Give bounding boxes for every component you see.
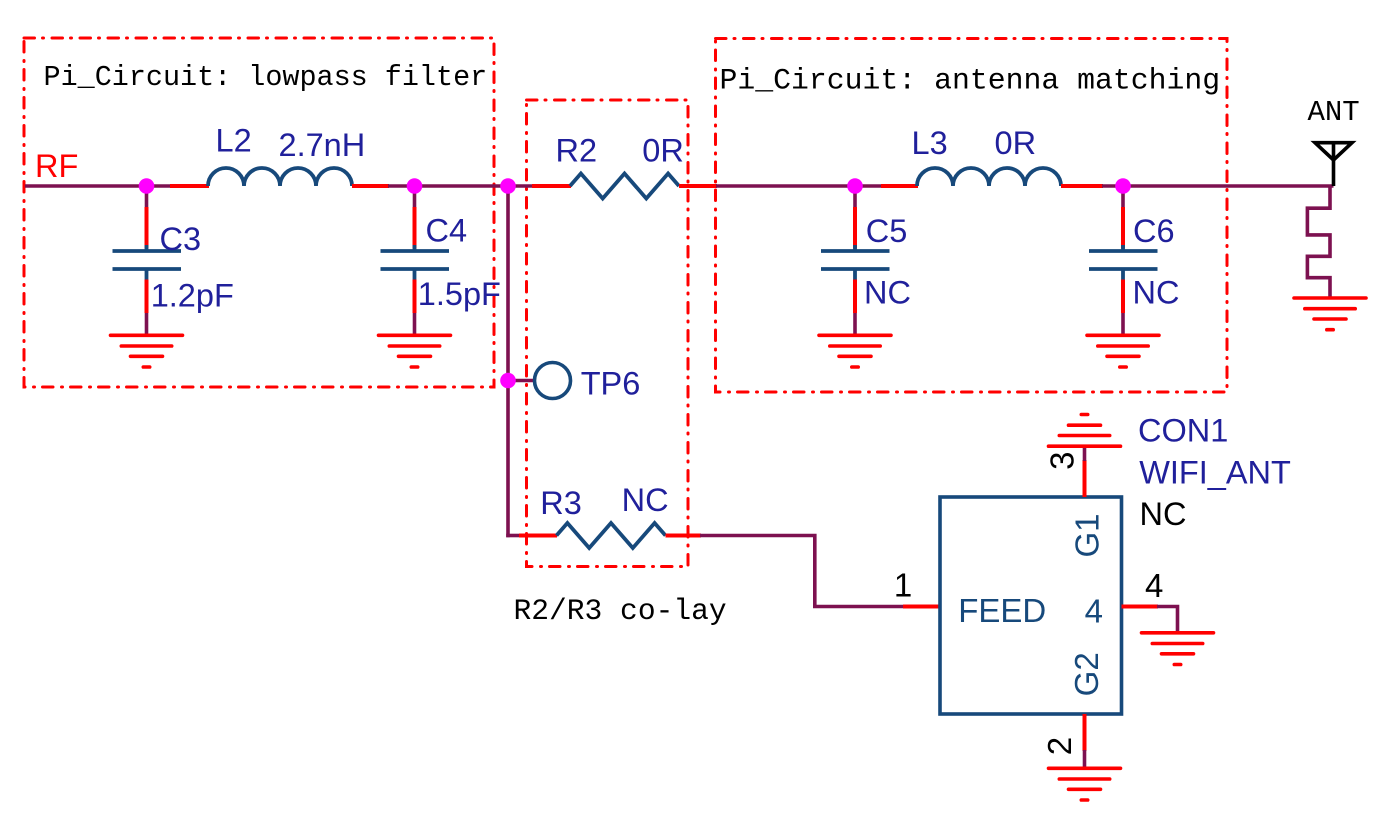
pin C4 bottom (red) [413, 280, 417, 314]
capacitor C5 branch: wire node D down [853, 186, 857, 208]
svg-text:NC: NC [864, 275, 911, 311]
pin L2 right (red) [352, 184, 389, 188]
junction node C [500, 178, 516, 194]
wire C4 to ground [413, 313, 417, 335]
svg-text:C5: C5 [866, 213, 908, 249]
wire C5 to ground [853, 313, 857, 335]
wire node A to L2 pin [146, 184, 170, 188]
junction node B [407, 178, 423, 194]
pin R2 right (red) [679, 184, 717, 188]
svg-text:3: 3 [1044, 452, 1081, 470]
svg-text:R2: R2 [556, 133, 598, 169]
junction node D [847, 178, 863, 194]
svg-text:1.5pF: 1.5pF [418, 276, 501, 312]
pin R3 right (red) [666, 534, 702, 538]
svg-text:1: 1 [894, 567, 912, 604]
resistor R3 [557, 523, 666, 548]
svg-text:R3: R3 [540, 485, 582, 521]
svg-text:ANT: ANT [1308, 96, 1360, 129]
pin 3 (red) [1083, 460, 1087, 497]
wire node D to L3 pin [855, 184, 881, 188]
svg-text:4: 4 [1085, 593, 1103, 630]
ground pin3 (inverted) [1049, 415, 1121, 447]
svg-text:NC: NC [1140, 496, 1187, 532]
capacitor C3 [113, 245, 182, 280]
pin L3 right (red) [1061, 184, 1103, 188]
pin R3 left (red) [519, 534, 557, 538]
pin C4 top (red) [413, 207, 417, 249]
pin C6 bottom (red) [1121, 280, 1125, 314]
svg-text:G1: G1 [1069, 513, 1106, 557]
wire pin3 to ground [1083, 446, 1087, 461]
svg-text:R2/R3 co-lay: R2/R3 co-lay [514, 594, 727, 628]
capacitor C4 branch: wire node B down [413, 186, 417, 208]
svg-text:G2: G2 [1068, 652, 1105, 696]
inductor L3 [917, 168, 1061, 186]
ground C4 [379, 335, 451, 367]
svg-text:Pi_Circuit: antenna matching: Pi_Circuit: antenna matching [720, 63, 1221, 97]
capacitor C6 branch: wire node E down [1121, 186, 1125, 208]
svg-text:NC: NC [622, 482, 669, 518]
svg-text:4: 4 [1145, 567, 1163, 604]
svg-text:WIFI_ANT: WIFI_ANT [1139, 455, 1291, 491]
dashed block: Pi_Circuit antenna matching [716, 39, 1228, 393]
capacitor C3 branch: wire node A down [145, 186, 149, 208]
svg-text:C6: C6 [1133, 213, 1175, 249]
pin C3 top (red) [145, 207, 149, 249]
svg-text:FEED: FEED [958, 592, 1046, 629]
wire R3 row horizontal [506, 534, 519, 538]
wire RF to node A [25, 184, 147, 188]
junction node E [1115, 178, 1131, 194]
resistor R2 [570, 174, 679, 199]
pin C5 bottom (red) [853, 280, 857, 314]
wire L2 to node B [388, 184, 415, 188]
svg-text:C4: C4 [426, 213, 468, 249]
pin 4 (red) [1122, 605, 1159, 609]
svg-text:TP6: TP6 [581, 365, 641, 401]
wire pin2 to ground [1083, 750, 1087, 767]
ground C6 [1087, 335, 1159, 367]
svg-text:0R: 0R [642, 133, 684, 169]
svg-text:1.2pF: 1.2pF [151, 278, 234, 314]
testpoint TP6 circle [535, 363, 571, 399]
wire R3 to corner [700, 536, 904, 607]
wire L3 to node E to antenna [1102, 184, 1334, 188]
capacitor C6 [1089, 245, 1158, 280]
capacitor C5 [821, 245, 890, 280]
wire R2 to node D [716, 184, 856, 188]
svg-text:RF: RF [35, 148, 78, 184]
junction TP6 node [500, 373, 516, 389]
pin L2 left (red) [170, 184, 209, 188]
wire node B to node C to R2 [414, 184, 532, 188]
svg-text:0R: 0R [995, 125, 1037, 161]
antenna meander stub [1307, 186, 1330, 298]
svg-text:Pi_Circuit: lowpass filter: Pi_Circuit: lowpass filter [44, 61, 488, 94]
pin L3 left (red) [881, 184, 918, 188]
svg-text:C3: C3 [160, 221, 202, 257]
pin 2 (red) [1083, 714, 1087, 751]
pin C5 top (red) [853, 207, 857, 249]
ground pin2 [1049, 768, 1121, 800]
pin CON1 FEED (red) [903, 605, 940, 609]
wire TP6 node down to R3 row [506, 380, 510, 537]
wire pin4 to ground [1157, 607, 1178, 632]
svg-text:2.7nH: 2.7nH [279, 127, 366, 163]
connector CON1 body [940, 497, 1122, 714]
ground C5 [819, 335, 891, 367]
svg-text:L2: L2 [216, 123, 252, 159]
inductor L2 [208, 168, 352, 186]
svg-text:CON1: CON1 [1138, 413, 1228, 449]
dashed block: R2/R3 co-lay [527, 100, 689, 567]
ground pin4 [1142, 633, 1214, 665]
ground C3 [111, 335, 183, 367]
antenna symbol [1315, 143, 1352, 186]
svg-text:L3: L3 [912, 125, 948, 161]
dashed block: Pi_Circuit lowpass filter [24, 38, 494, 387]
wire node C down to TP6 node [506, 186, 510, 381]
wire C6 to ground [1121, 313, 1125, 335]
wire C3 to ground [145, 313, 149, 335]
pin R2 left (red) [532, 184, 571, 188]
ground ANT [1294, 298, 1366, 330]
pin C6 top (red) [1121, 207, 1125, 249]
capacitor C4 [381, 245, 450, 280]
wire stub to TP6 [508, 379, 535, 383]
svg-text:NC: NC [1133, 275, 1180, 311]
junction node A [139, 178, 155, 194]
pin C3 bottom (red) [145, 280, 149, 314]
svg-text:2: 2 [1041, 737, 1078, 755]
